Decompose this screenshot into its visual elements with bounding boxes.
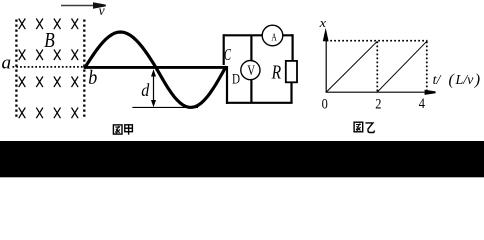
svg-text:R: R — [271, 62, 281, 84]
B field crosses row 4 — [19, 108, 78, 119]
graph y-axis — [323, 28, 329, 92]
svg-text:C: C — [224, 45, 232, 64]
graph x-axis — [326, 90, 436, 95]
svg-text:b: b — [88, 67, 97, 89]
circuit right lower wire — [290, 82, 292, 103]
svg-text:D: D — [232, 72, 240, 88]
caption 图甲 (drawn glyphs) — [113, 125, 132, 135]
field region right dotted border — [83, 20, 85, 119]
B field crosses row 3 — [19, 77, 78, 88]
circuit left lower wire — [226, 66, 228, 104]
sine wave — [85, 32, 226, 107]
svg-text:B: B — [44, 28, 55, 52]
dotted line a-b — [13, 66, 85, 68]
svg-text:a: a — [2, 52, 12, 73]
bottom black bar — [0, 141, 484, 177]
B field crosses row 2 — [19, 49, 78, 60]
svg-text:): ) — [474, 71, 480, 88]
svg-text:4: 4 — [419, 96, 426, 112]
caption 图乙 (drawn glyphs) — [354, 122, 375, 132]
circuit left upper wire — [223, 34, 225, 65]
ramp 2 — [377, 41, 427, 92]
voltmeter branch upper wire — [250, 35, 252, 61]
circuit right upper wire — [292, 34, 294, 61]
amplitude arrow d — [151, 69, 156, 107]
svg-text:A: A — [271, 32, 276, 44]
ramp 1 — [326, 41, 377, 92]
voltmeter branch lower wire — [250, 80, 252, 103]
circuit bottom wire — [226, 102, 293, 104]
amplitude reference line — [132, 106, 198, 108]
wave axis line b-c — [85, 66, 226, 69]
svg-text:V: V — [247, 63, 255, 79]
dotted vertical at t=2 — [376, 42, 378, 93]
dotted vertical at t=4 — [426, 42, 428, 93]
axis label t/(L/v) — [433, 71, 481, 88]
svg-text:2: 2 — [375, 96, 381, 112]
svg-text:v: v — [99, 3, 105, 18]
B field crosses row 1 — [19, 19, 78, 30]
velocity arrow v — [61, 2, 106, 18]
svg-text:x: x — [319, 15, 327, 30]
graph top dotted line — [326, 40, 427, 42]
svg-text:L/v: L/v — [455, 73, 475, 88]
ammeter A — [262, 25, 283, 46]
field region left dotted border — [15, 20, 17, 119]
svg-text:t/: t/ — [433, 73, 442, 88]
svg-text:(: ( — [449, 71, 456, 88]
svg-text:d: d — [141, 80, 149, 100]
resistor R box — [286, 61, 297, 82]
circuit top wire — [224, 34, 293, 36]
svg-text:0: 0 — [322, 96, 328, 112]
voltmeter V — [241, 61, 260, 80]
